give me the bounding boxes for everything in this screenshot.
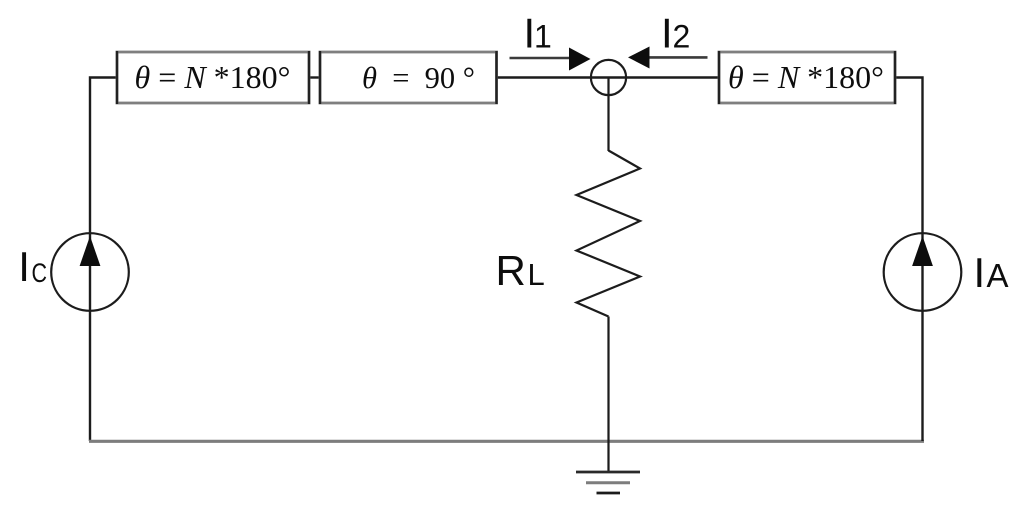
- ground: [576, 472, 640, 493]
- svg-text:2: 2: [673, 19, 691, 55]
- svg-text:θ = N *180°: θ = N *180°: [728, 59, 884, 95]
- arrow I2 current into node: [628, 47, 708, 69]
- wire left source bottom to bottom rail: [89, 310, 91, 441]
- wire right vertical drop from box3: [895, 78, 923, 235]
- phase block box3 theta=N*180: [719, 51, 895, 104]
- svg-text:θ = N *180°: θ = N *180°: [135, 59, 291, 95]
- current source IA: [884, 233, 962, 311]
- wire resistor down through rail to ground: [607, 317, 609, 473]
- svg-text:θ = 90 °: θ = 90 °: [362, 61, 475, 95]
- node junction circle: [591, 60, 626, 95]
- phase block box1 theta=N*180: [117, 51, 309, 104]
- label I2: [661, 10, 690, 57]
- wire right source bottom to bottom rail: [921, 310, 923, 441]
- svg-text:L: L: [528, 257, 545, 292]
- arrow I1 current into node: [510, 48, 591, 71]
- svg-text:R: R: [496, 247, 526, 294]
- label RL: [496, 247, 545, 294]
- svg-text:I: I: [974, 249, 986, 296]
- svg-text:1: 1: [534, 19, 552, 55]
- svg-text:C: C: [32, 258, 48, 288]
- label IA: [974, 249, 1009, 296]
- wire bottom rail: [89, 440, 924, 443]
- svg-text:I: I: [18, 243, 30, 290]
- svg-text:A: A: [987, 257, 1009, 294]
- wire box1 to box2 stub: [309, 76, 320, 78]
- wire top-left horizontal and left vertical drop: [90, 78, 117, 235]
- resistor RL zigzag: [577, 151, 641, 317]
- wire box2 to node to box3: [497, 76, 720, 78]
- label I1: [524, 10, 552, 57]
- phase block box2 theta=90: [320, 51, 497, 104]
- current source IC: [51, 233, 129, 311]
- label IC: [18, 243, 47, 290]
- wire node down to resistor: [607, 78, 609, 152]
- svg-text:I: I: [661, 10, 673, 57]
